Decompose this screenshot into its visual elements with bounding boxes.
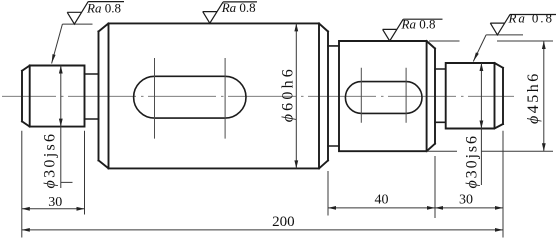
svg-text:200: 200 <box>272 214 295 230</box>
roughness symbol 4: leader arrowhead <box>473 52 479 61</box>
left journal cylinder phi30js6 outline <box>22 66 85 127</box>
roughness symbol 1: leader arrowhead <box>52 54 56 63</box>
right journal cylinder phi30js6 outline <box>446 63 503 129</box>
dimension 30 left: dimension line <box>22 208 85 210</box>
relief groove 2 <box>328 46 339 146</box>
middle cylinder phi45h6 outline <box>339 41 435 151</box>
dimension 40: arrowheads <box>328 206 336 210</box>
dimension 40: dimension line <box>328 207 435 209</box>
keyway slot on middle cylinder <box>345 82 422 114</box>
relief groove 3 <box>435 69 446 122</box>
main horizontal centerline <box>2 95 514 97</box>
roughness symbol 2 (large cylinder): check glyph <box>203 2 257 23</box>
keyway slot on large cylinder <box>134 76 246 118</box>
svg-text:Ra 0.8: Ra 0.8 <box>221 0 256 15</box>
dimension phi30js6 right: dimension line <box>480 63 482 185</box>
large cylinder phi60h6 outline <box>99 23 329 168</box>
roughness symbol 4: leader line <box>473 35 486 62</box>
dimension 200: dimension line <box>22 229 503 231</box>
dimension 30 right: extension line <box>502 131 504 238</box>
dimension 30 right: dimension line <box>435 207 503 209</box>
dimension 30 left: extension lines <box>22 131 85 238</box>
svg-text:ϕ60h6: ϕ60h6 <box>280 66 297 122</box>
dimension 40: extension lines <box>328 156 435 218</box>
roughness symbol 4 (right journal): leader shoulder <box>486 34 523 36</box>
svg-text:Ra 0.8: Ra 0.8 <box>508 11 554 26</box>
roughness symbol 1 (left journal): leader shoulder <box>62 23 92 25</box>
keyway 1 arc centerlines <box>155 58 226 139</box>
dimension phi30js6 right: arrowheads <box>480 63 484 71</box>
roughness symbol 4: check glyph <box>490 15 556 35</box>
svg-text:ϕ30js6: ϕ30js6 <box>42 132 59 189</box>
dimension phi45h6: arrowheads <box>542 41 546 49</box>
dimension phi30js6 left: dimension line <box>61 66 73 189</box>
svg-text:ϕ30js6: ϕ30js6 <box>464 134 481 188</box>
roughness symbol 1: check glyph <box>67 2 124 25</box>
svg-text:ϕ45h6: ϕ45h6 <box>525 71 542 124</box>
roughness symbol 1: leader line <box>52 24 63 63</box>
dimension phi60h6: arrowheads <box>294 23 298 31</box>
svg-text:Ra 0.8: Ra 0.8 <box>86 0 121 15</box>
dimension phi60h6: dimension line <box>295 23 297 168</box>
svg-text:30: 30 <box>48 195 62 210</box>
dimension phi45h6: extension lines <box>427 41 553 151</box>
dimension phi30js6 left: arrowheads <box>59 66 63 74</box>
svg-text:30: 30 <box>459 193 473 208</box>
dimension 30 left: arrowheads <box>22 207 30 211</box>
dimension 30 right: arrowheads <box>435 206 443 210</box>
dimension phi45h6: dimension line <box>543 41 545 151</box>
dimension 200: arrowheads <box>22 228 30 232</box>
keyway 2 arc centerlines <box>361 68 406 123</box>
relief groove 1 <box>85 74 99 119</box>
svg-text:40: 40 <box>375 193 389 208</box>
roughness symbol 3 (middle cylinder): check glyph <box>383 19 443 41</box>
svg-text:Ra 0.8: Ra 0.8 <box>401 16 436 31</box>
